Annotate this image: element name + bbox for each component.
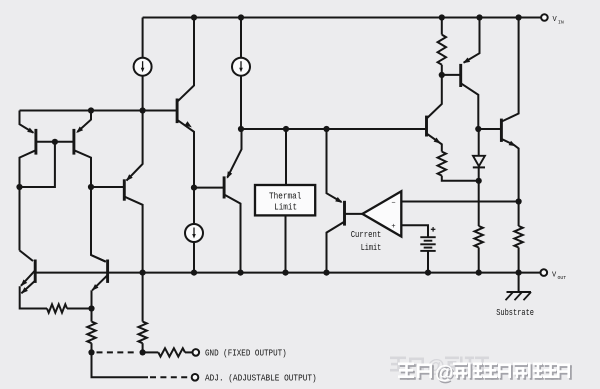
- node rail-thermal: [282, 270, 288, 276]
- wire CS1 top: [142, 18, 144, 58]
- wire R3 bottom: [142, 343, 144, 352]
- node bus-Q2E: [88, 107, 94, 113]
- wire Q11 emitter: [501, 139, 518, 202]
- node rail-Q11C: [516, 14, 522, 20]
- svg-text:@: @: [435, 363, 454, 384]
- wire Q10 emitter: [464, 18, 480, 63]
- wire gnd lead2: [185, 351, 192, 353]
- wire R2 bottom: [91, 343, 93, 352]
- Q3 emitter arrow: [126, 174, 133, 181]
- wire Q7 emitter down: [20, 286, 47, 308]
- svg-text:−: −: [391, 200, 395, 208]
- wire Q10 base: [442, 74, 461, 76]
- resistor R5: [438, 152, 446, 176]
- terminal VOUT: [541, 269, 548, 276]
- wire Q2 collector: [74, 150, 106, 262]
- wire Q9 collector: [427, 75, 442, 119]
- wire R6 top: [478, 181, 480, 226]
- terminal ADJ: [192, 374, 199, 381]
- node bus-CS1: [140, 107, 146, 113]
- wire R7 bottom: [518, 248, 520, 273]
- node rail-R6: [476, 270, 482, 276]
- node bus-Q6E: [323, 126, 329, 132]
- node base tie: [52, 139, 58, 145]
- svg-text:Thermal: Thermal: [269, 192, 302, 202]
- resistor R3: [138, 322, 146, 344]
- node bus-thermal: [283, 126, 289, 132]
- battery reference B1: [420, 236, 435, 238]
- transistor Q6 base bar: [343, 201, 346, 226]
- node bus-CS2b: [238, 126, 244, 132]
- node rail-CS2: [238, 14, 244, 20]
- node rail-Q4C: [191, 14, 197, 20]
- node rail-Q6C: [323, 270, 329, 276]
- transistor Q10 base bar: [459, 64, 462, 87]
- node Q2C-Q3B: [88, 184, 94, 190]
- wire Q3 collector: [124, 197, 142, 273]
- wire Q3 emitter: [127, 111, 143, 181]
- wire Q5 emitter: [227, 129, 241, 178]
- svg-text:+: +: [391, 223, 395, 231]
- wire top supply rail: [143, 17, 545, 19]
- wire Q9 emitter: [427, 133, 442, 151]
- Q9 emitter arrow: [434, 138, 441, 144]
- resistor R6: [475, 226, 483, 248]
- node Q1C-diode: [16, 184, 22, 190]
- resistor R1: [47, 304, 67, 312]
- resistor R2: [87, 322, 95, 344]
- wire Q8 emitter: [92, 275, 107, 290]
- wire adj down: [92, 352, 149, 377]
- wire R2 top: [91, 309, 93, 322]
- wire R5 bottom: [442, 176, 479, 181]
- wire R4 bottom: [441, 65, 443, 75]
- node rail-CS3: [191, 270, 197, 276]
- Q7 emitter2 arrow: [21, 287, 28, 294]
- diode D1: [473, 156, 485, 166]
- Q8 emitter arrow: [92, 284, 99, 291]
- wire Q1 emitter: [20, 111, 34, 133]
- svg-text:Limit: Limit: [361, 243, 382, 253]
- svg-text:GND (FIXED OUTPUT): GND (FIXED OUTPUT): [205, 349, 287, 359]
- wire R7 top: [518, 202, 520, 227]
- wire Q5 collector: [224, 195, 240, 273]
- wire CS3 bottom: [193, 242, 195, 273]
- transistor Q2 base bar: [72, 129, 75, 155]
- ground substrate symbol: [507, 291, 532, 293]
- wire CS3 top: [193, 188, 195, 224]
- wire Q11 collector: [501, 18, 518, 122]
- transistor Q8 base bar: [106, 260, 109, 283]
- resistor R7: [514, 226, 522, 248]
- node rail-Q5C: [237, 270, 243, 276]
- node rail-Q10E: [476, 14, 482, 20]
- transistor Q1 base bar: [34, 129, 37, 155]
- wire Q4 emitter: [177, 120, 194, 188]
- wire Q3 base: [91, 186, 124, 188]
- Q5 emitter arrow: [227, 171, 232, 178]
- terminal VIN: [541, 14, 548, 21]
- terminal GND: [193, 349, 200, 356]
- wire dashed R2-R3: [97, 351, 139, 353]
- op-amp U1: [362, 191, 401, 236]
- node rail-R4: [439, 14, 445, 20]
- svg-text:OUT: OUT: [558, 275, 567, 281]
- svg-text:Limit: Limit: [274, 202, 297, 212]
- transistor Q9 base bar: [425, 116, 428, 137]
- wire Q5 base: [194, 187, 224, 189]
- wire thermal bottom tap: [285, 215, 287, 272]
- wire Q8 emitter down: [91, 290, 93, 308]
- wire Q7 emitter1: [21, 270, 35, 286]
- node Q11E-minus: [516, 198, 522, 204]
- diode D1 cathode wire: [478, 167, 480, 180]
- transistor Q5 base bar: [223, 176, 226, 198]
- current source I3: [185, 224, 203, 242]
- wire Q7 emitter2: [21, 281, 35, 294]
- node rail-battery: [425, 270, 431, 276]
- current source I1: [134, 58, 152, 76]
- wire R3 top: [142, 273, 144, 322]
- wire Q1 collector: [20, 150, 36, 250]
- transistor Q3 base bar: [123, 179, 126, 200]
- wire R4 top: [441, 18, 443, 35]
- wire gnd lead: [143, 351, 159, 353]
- watermark: [390, 356, 572, 385]
- transistor Q4 base bar: [176, 99, 179, 124]
- wire CS2 top: [240, 18, 242, 58]
- node R2-adj: [88, 349, 94, 355]
- wire battery bottom: [427, 251, 429, 273]
- node R1-R2: [88, 305, 94, 311]
- node Q4E-Q5B: [191, 185, 197, 191]
- svg-text:Substrate: Substrate: [496, 308, 534, 318]
- wire Q8 collector: [91, 255, 106, 262]
- wire CS2 bottom: [240, 76, 242, 129]
- Q2 emitter arrow: [76, 127, 83, 134]
- node R5-D1: [476, 178, 482, 184]
- Q6 emitter arrow: [335, 197, 342, 203]
- wire bias bus: [20, 110, 178, 112]
- wire thermal top tap: [285, 129, 287, 185]
- node rail-Q3C: [140, 270, 146, 276]
- wire R1 right: [67, 308, 92, 310]
- svg-text:ADJ. (ADJUSTABLE OUTPUT): ADJ. (ADJUSTABLE OUTPUT): [205, 374, 317, 384]
- diode D1 anode wire: [478, 129, 480, 156]
- Q11 emitter arrow: [509, 141, 516, 147]
- node Q10C-Q11B: [475, 126, 481, 132]
- wire CS1 bottom: [142, 76, 144, 111]
- node rail-substrate: [516, 270, 522, 276]
- wire U1 plus input: [401, 225, 428, 237]
- wire Q7 collector: [20, 250, 34, 261]
- current source I2: [232, 58, 250, 76]
- wire U1 minus input: [401, 201, 518, 203]
- Q1 emitter arrow: [27, 128, 34, 134]
- svg-text:Current: Current: [351, 230, 382, 240]
- wire Q1-Q2 base: [36, 141, 74, 143]
- wire drive bus: [241, 128, 427, 130]
- transistor Q11 base bar: [500, 119, 503, 142]
- wire Q11 base: [478, 128, 501, 130]
- Q4 emitter arrow: [185, 121, 192, 127]
- svg-text:IN: IN: [558, 20, 564, 26]
- wire R6 bottom: [478, 248, 480, 273]
- node R3-gnd: [140, 349, 146, 355]
- wire adj dashed: [150, 376, 191, 378]
- transistor Q7 base bar: [34, 260, 37, 283]
- battery plus mark: [431, 228, 436, 230]
- wire Q4 collector: [177, 18, 194, 102]
- wire Q6 collector: [327, 222, 345, 273]
- wire Q6 base: [345, 213, 363, 215]
- wire base-collector tie: [20, 142, 55, 187]
- block Thermal Limit: [255, 185, 315, 215]
- Q7 emitter1 arrow: [21, 280, 28, 287]
- wire output rail: [35, 272, 543, 274]
- resistor R8: [158, 348, 185, 356]
- wire Q6 emitter: [327, 129, 342, 202]
- resistor R4: [438, 35, 446, 65]
- Q10 emitter arrow: [463, 58, 470, 64]
- wire substrate: [518, 273, 520, 292]
- wire Q10 collector: [461, 83, 479, 129]
- wire Q2 emitter: [77, 111, 91, 132]
- node R4-Q10B: [439, 72, 445, 78]
